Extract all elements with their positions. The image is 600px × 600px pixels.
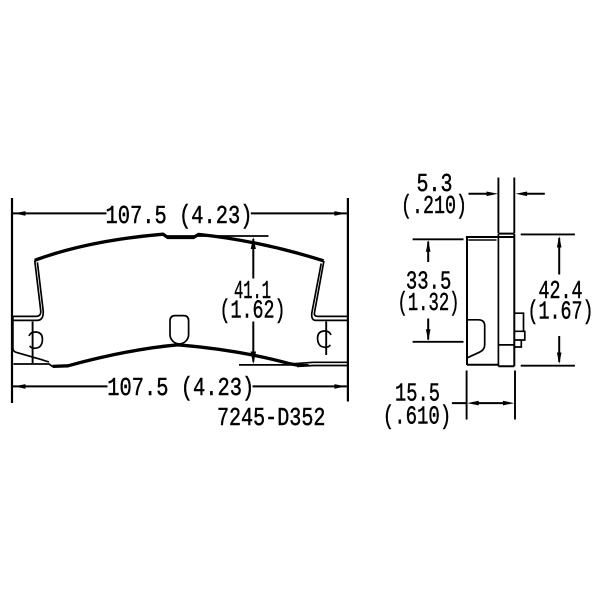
side view: plate crossline (498, 344, 514, 346)
dimension text (1.32) (398, 288, 460, 318)
dimension text (.210) (401, 191, 467, 221)
5.3 extension lines (498, 178, 514, 234)
side view: plate top edge (498, 233, 514, 235)
dimension text (.610) (383, 402, 452, 432)
side view: friction top edge (466, 236, 514, 238)
dimension text 33.5 (406, 267, 452, 297)
5.3 dimension arrows (469, 192, 545, 197)
svg-text:(.210): (.210) (401, 191, 467, 221)
15.5 dimension line (452, 401, 515, 406)
dimension text 15.5 (395, 378, 440, 408)
right ear bottom lower line (297, 365, 348, 368)
svg-text:7245-D352: 7245-D352 (217, 403, 326, 433)
42.4 top extension line (521, 233, 575, 235)
side view: plate bottom edge (498, 365, 514, 367)
left wear clip curl (29, 332, 42, 348)
svg-text:107.5 (4.23): 107.5 (4.23) (107, 373, 254, 403)
right ear bottom upper line (292, 362, 348, 364)
33.5 top extension line (413, 238, 464, 240)
33.5 dimension line (426, 240, 431, 340)
left ear plate bottom line (13, 364, 52, 367)
dimension line bottom 107.5 (13, 384, 347, 389)
front view: extension line right (347, 198, 349, 402)
dimension text (1.62) (220, 296, 286, 326)
42.4 bottom extension line (521, 365, 575, 367)
side view: plate right edge (513, 234, 515, 367)
right wear clip curl (318, 331, 331, 347)
pad left edge inner (backing plate) (13, 262, 43, 320)
svg-text:(.610): (.610) (383, 402, 452, 432)
right ear inner vertical line (325, 322, 327, 356)
dimension text (1.67) (528, 297, 594, 327)
pad right edge outer with ear (314, 261, 348, 316)
dimension text 42.4 (539, 276, 583, 306)
15.5 extension lines (467, 371, 515, 420)
svg-text:(1.67): (1.67) (528, 297, 594, 327)
side view: chamfer profile (467, 320, 485, 358)
dimension text 41.1 (234, 276, 271, 306)
41.1 dimension line (251, 237, 257, 364)
side view: shim clip (514, 313, 525, 347)
side view: plate left line (497, 234, 499, 367)
pad right edge inner (backing plate) (312, 264, 348, 321)
part number 7245-D352 (217, 403, 326, 433)
41.1 top reference line (164, 235, 269, 237)
side view: friction block left edge (466, 237, 468, 365)
front view: extension line left (11, 198, 13, 403)
side view: friction bottom edge (467, 364, 498, 366)
dimension text 5.3 (417, 169, 453, 199)
svg-text:107.5 (4.23): 107.5 (4.23) (106, 201, 253, 231)
pad left edge outer with ear (13, 260, 49, 362)
pad top arc with notch (35, 234, 324, 261)
left ear inner vertical line (32, 322, 34, 364)
pad bottom thick arc (53, 345, 300, 367)
41.1 bottom reference line (239, 364, 309, 366)
dimension text top 107.5 (4.23) (106, 201, 253, 231)
33.5 bottom extension line (413, 341, 464, 343)
side view: friction top inner line (468, 239, 496, 241)
center slot hole (170, 316, 189, 344)
svg-text:(1.32): (1.32) (398, 288, 460, 318)
dimension text bottom 107.5 (4.23) (107, 373, 254, 403)
svg-text:(1.62): (1.62) (220, 296, 286, 326)
42.4 dimension line (557, 236, 562, 364)
dimension line top 107.5 (13, 211, 347, 216)
